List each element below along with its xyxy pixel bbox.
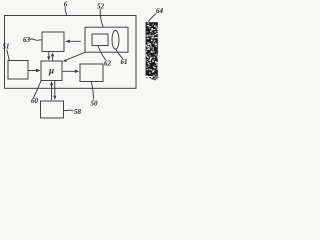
leader line for label 64	[149, 14, 156, 22]
host box 58 (bottom, outside frame)	[41, 101, 64, 118]
leader line for label 61	[116, 50, 123, 59]
photodetector array 62 (inner rect)	[92, 34, 108, 46]
svg-text:51: 51	[3, 43, 10, 51]
svg-text:61: 61	[121, 58, 128, 66]
leader line for label 50	[91, 82, 93, 100]
arrow from microcontroller to output box 50	[63, 70, 76, 72]
output box 50 (right of microcontroller)	[80, 64, 103, 82]
diagonal link from optical unit to microcontroller	[64, 52, 85, 61]
device frame 6	[5, 16, 137, 89]
memory box 63	[42, 32, 64, 52]
speckle surface portion 64	[146, 22, 159, 80]
svg-text:50: 50	[91, 100, 99, 108]
arrow from optical unit into memory 63	[69, 40, 81, 42]
svg-text:64: 64	[156, 7, 164, 15]
optical unit box 52	[85, 27, 128, 52]
svg-text:63: 63	[23, 36, 31, 44]
svg-text:58: 58	[74, 108, 82, 116]
arrow from interface 51 to microcontroller	[29, 70, 38, 72]
leader line for label 51	[7, 50, 9, 60]
interface box 51 (left)	[8, 61, 28, 80]
lens 61 (ellipse)	[112, 30, 119, 49]
leader line for label 52	[100, 10, 103, 28]
leader line for label 60	[33, 81, 41, 98]
leader line for label 63	[30, 39, 42, 40]
leader line for label 58	[64, 109, 73, 112]
svg-text:62: 62	[104, 60, 112, 68]
svg-text:6: 6	[64, 1, 68, 9]
leader line for label 6	[65, 8, 66, 16]
bidirectional arrows between microcontroller and host box 58	[51, 84, 53, 100]
bidirectional arrows between memory 63 and microcontroller	[48, 52, 50, 57]
svg-text:μ: μ	[48, 66, 54, 76]
svg-text:60: 60	[31, 97, 39, 105]
leader line for label 62	[98, 46, 106, 60]
microcontroller box 60	[41, 61, 62, 81]
